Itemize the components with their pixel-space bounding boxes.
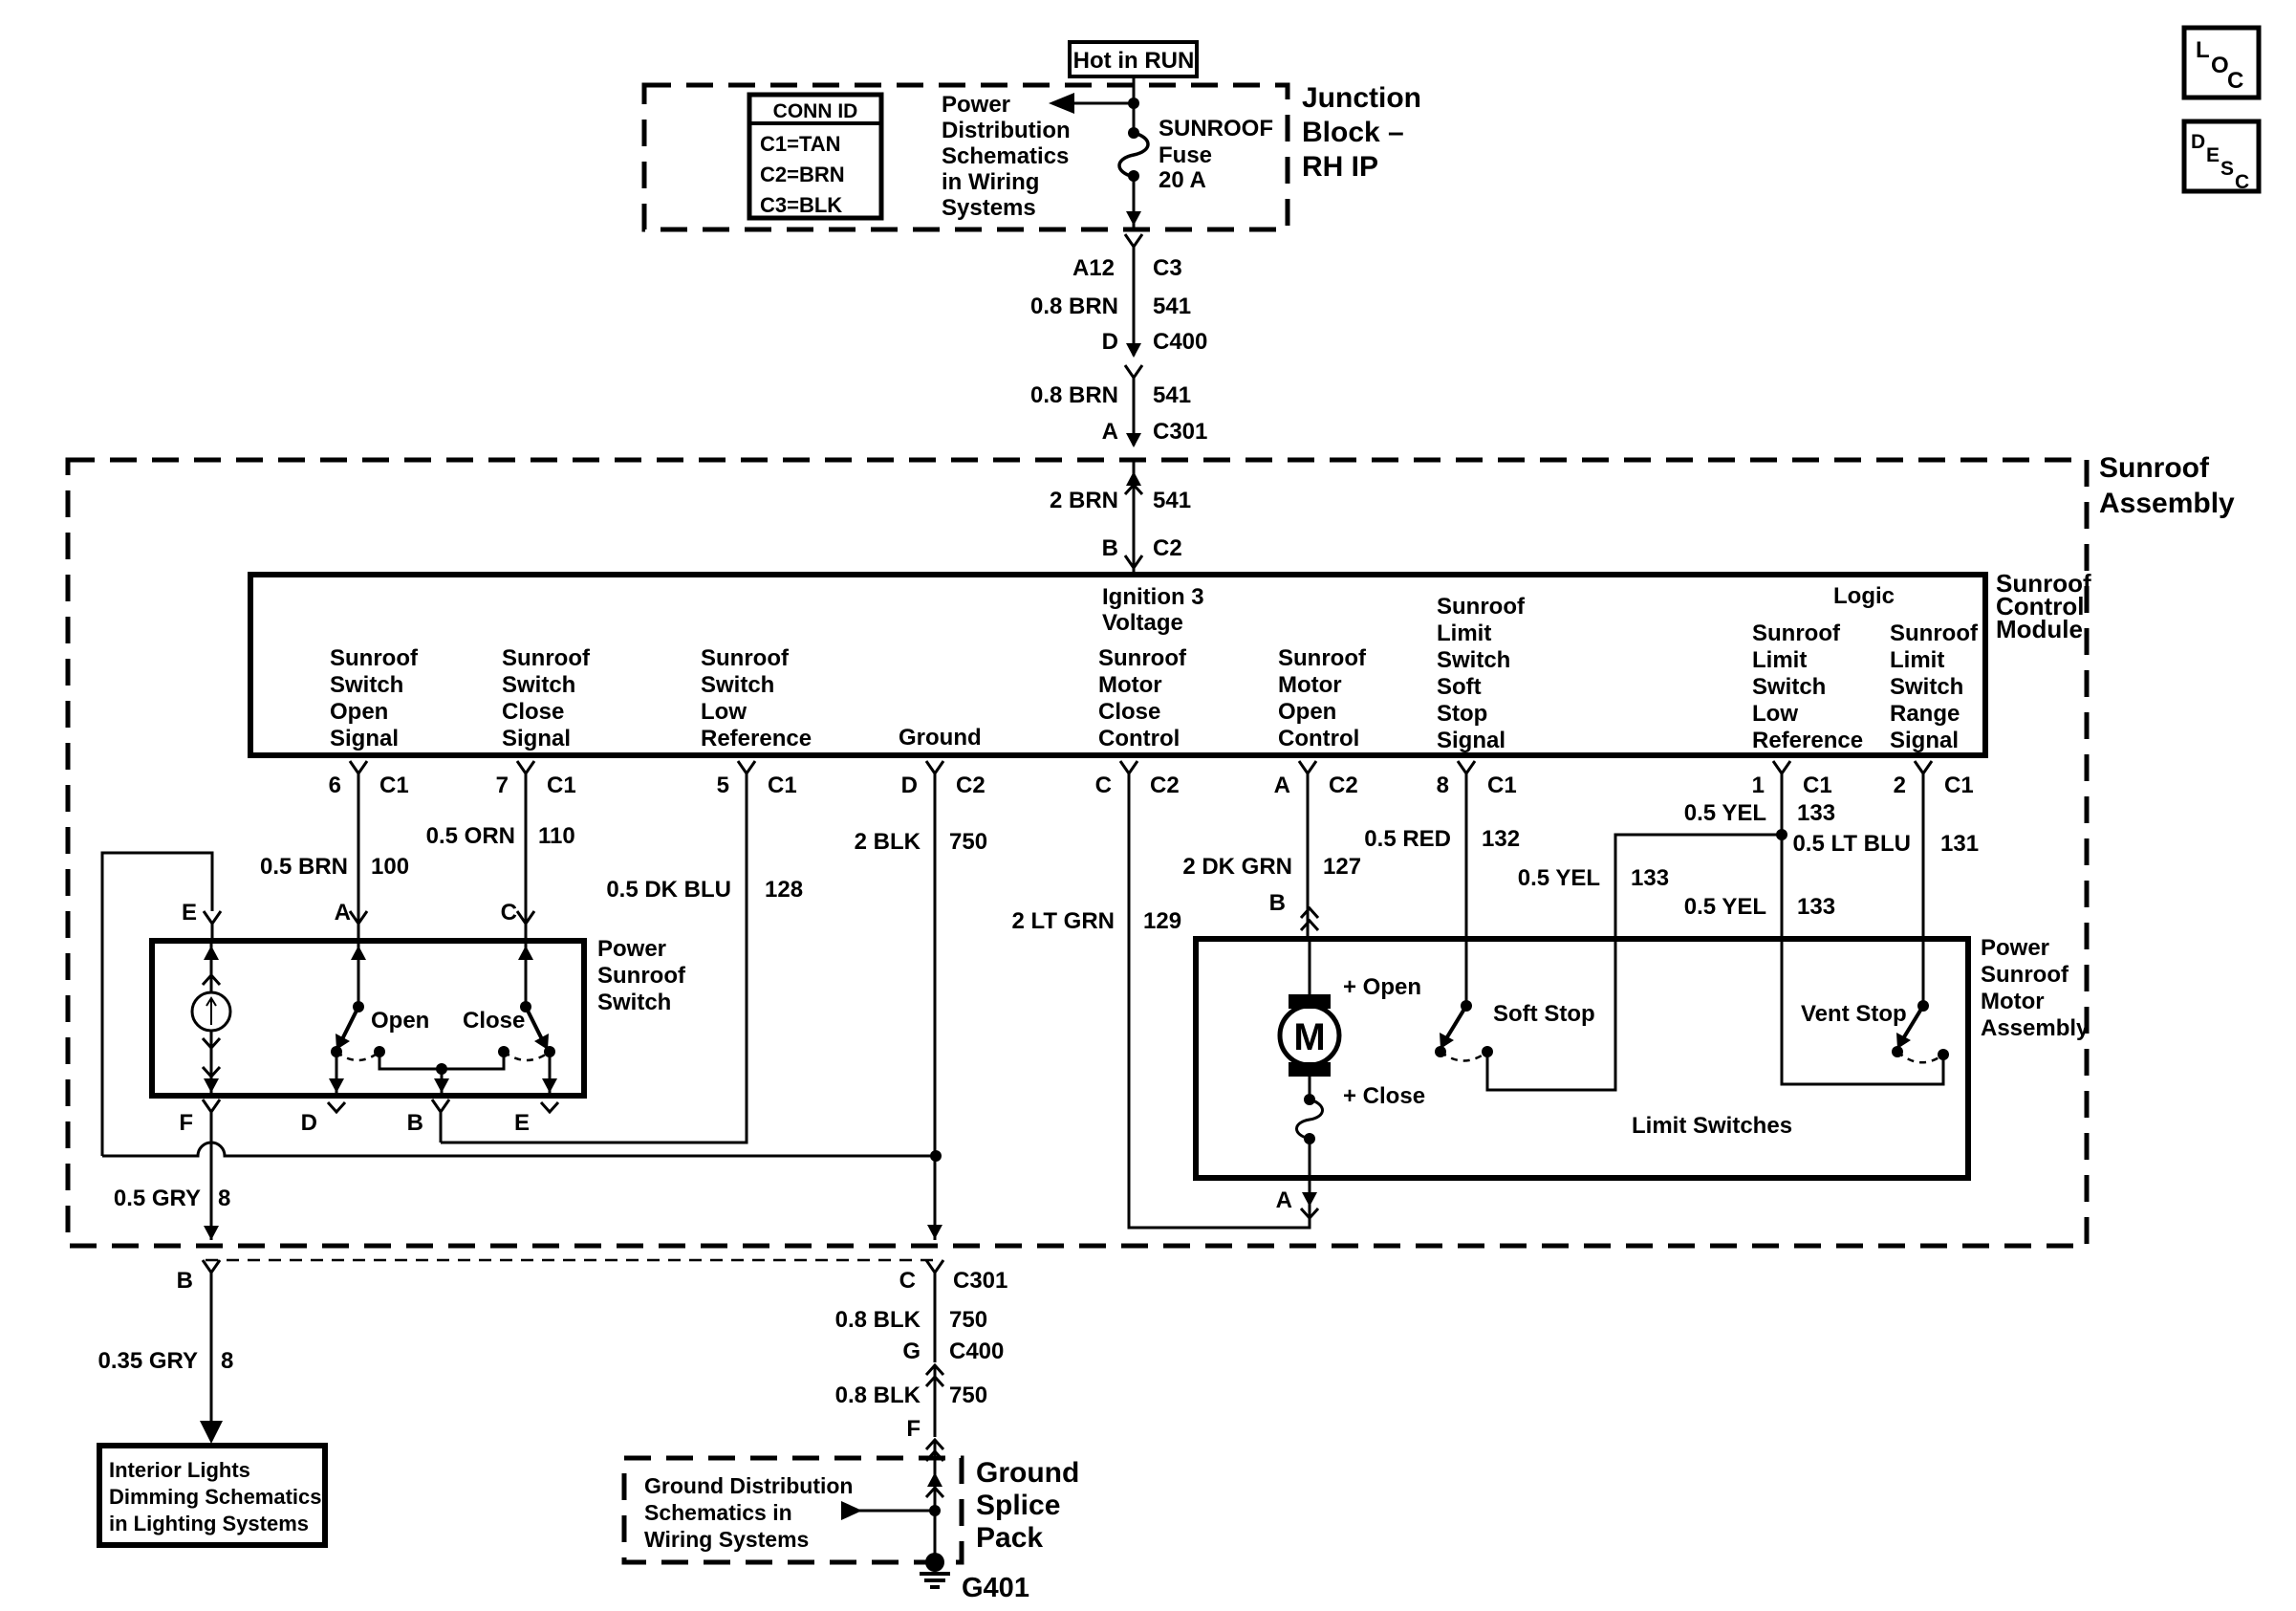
branch arrow to power distribution bbox=[1071, 102, 1134, 105]
ground distribution dashed box bbox=[624, 1458, 962, 1562]
svg-text:C1: C1 bbox=[379, 773, 409, 798]
svg-text:Switch: Switch bbox=[1437, 647, 1510, 673]
svg-text:Motor: Motor bbox=[1098, 672, 1162, 698]
module pin 2 C1 bbox=[1915, 761, 1932, 773]
switch pin E lower (dangling) bbox=[541, 1102, 558, 1112]
svg-text:C400: C400 bbox=[1153, 329, 1207, 355]
splice feed arrow bbox=[858, 1510, 935, 1513]
switch pin A bbox=[350, 911, 367, 924]
DESC reference box bbox=[2184, 121, 2259, 191]
svg-text:Sunroof: Sunroof bbox=[1278, 645, 1367, 671]
svg-text:Junction: Junction bbox=[1302, 82, 1421, 114]
svg-text:Schematics in: Schematics in bbox=[644, 1500, 792, 1525]
wire 0.5 RED 132 (pin 8 soft stop) bbox=[1465, 795, 1468, 1006]
svg-text:A: A bbox=[1102, 419, 1118, 445]
svg-text:A12: A12 bbox=[1072, 255, 1115, 281]
CONN ID table bbox=[749, 95, 881, 218]
svg-text:C1=TAN: C1=TAN bbox=[760, 132, 841, 156]
svg-text:Voltage: Voltage bbox=[1102, 610, 1183, 636]
earth ground symbol bbox=[920, 1572, 950, 1576]
contact E drop bbox=[549, 1052, 552, 1096]
Hot in RUN supply box bbox=[1070, 42, 1197, 76]
svg-text:Pack: Pack bbox=[976, 1522, 1043, 1554]
svg-text:0.5 BRN: 0.5 BRN bbox=[260, 854, 348, 880]
wire: E loop to ground link bbox=[102, 853, 212, 1156]
svg-text:Ground Distribution: Ground Distribution bbox=[644, 1473, 853, 1498]
power sunroof motor assembly box bbox=[1196, 939, 1968, 1178]
svg-text:in Wiring: in Wiring bbox=[942, 169, 1039, 195]
svg-text:2: 2 bbox=[1894, 773, 1906, 798]
svg-text:O: O bbox=[2211, 53, 2229, 78]
svg-text:C2: C2 bbox=[1329, 773, 1358, 798]
wire 0.5 LT BLU 131 (pin 2 range signal) bbox=[1922, 795, 1925, 1006]
svg-text:B: B bbox=[407, 1110, 423, 1136]
svg-text:Close: Close bbox=[502, 699, 564, 725]
sunroof control module U1 box bbox=[250, 575, 1985, 755]
wire 2 BLK 750 (pin D ground) bbox=[934, 795, 937, 1240]
svg-text:0.5 LT BLU: 0.5 LT BLU bbox=[1792, 831, 1911, 857]
open switch arm bbox=[357, 941, 360, 1007]
wire: F pin down to C301 bbox=[210, 1112, 213, 1240]
svg-text:C301: C301 bbox=[1153, 419, 1207, 445]
svg-text:C1: C1 bbox=[547, 773, 576, 798]
svg-text:5: 5 bbox=[717, 773, 729, 798]
svg-text:C2: C2 bbox=[956, 773, 986, 798]
LOC reference box bbox=[2184, 28, 2259, 98]
svg-text:Switch: Switch bbox=[701, 672, 774, 698]
svg-text:Limit Switches: Limit Switches bbox=[1632, 1113, 1792, 1139]
svg-text:D: D bbox=[2191, 131, 2205, 153]
svg-text:7: 7 bbox=[496, 773, 509, 798]
svg-text:C: C bbox=[2235, 171, 2249, 193]
svg-text:Reference: Reference bbox=[1752, 728, 1863, 753]
wire: Hot in RUN to fuse bbox=[1133, 76, 1136, 131]
svg-text:C2=BRN: C2=BRN bbox=[760, 163, 845, 186]
svg-text:G401: G401 bbox=[962, 1573, 1029, 1603]
module pin 8 C1 bbox=[1458, 761, 1475, 773]
svg-text:C1: C1 bbox=[1487, 773, 1517, 798]
svg-text:133: 133 bbox=[1797, 800, 1835, 826]
in-line connector C301 (thin dashed) bbox=[206, 1259, 942, 1262]
svg-text:Interior Lights: Interior Lights bbox=[109, 1458, 250, 1482]
svg-text:E: E bbox=[514, 1110, 530, 1136]
svg-text:0.5 YEL: 0.5 YEL bbox=[1518, 865, 1600, 891]
svg-text:Systems: Systems bbox=[942, 195, 1036, 221]
svg-text:C2: C2 bbox=[1150, 773, 1180, 798]
wire 0.35 GRY 8 to interior lights bbox=[210, 1273, 213, 1436]
svg-text:C: C bbox=[501, 900, 517, 925]
svg-text:0.5 GRY: 0.5 GRY bbox=[114, 1186, 201, 1211]
ground link wire with hop over F bbox=[102, 1143, 936, 1156]
svg-text:0.5 ORN: 0.5 ORN bbox=[426, 823, 515, 849]
wire 0.5 YEL 133 branch to vent stop bbox=[1782, 835, 1943, 1084]
svg-text:Module: Module bbox=[1996, 615, 2083, 643]
svg-text:Limit: Limit bbox=[1890, 647, 1944, 673]
svg-text:Open: Open bbox=[371, 1008, 429, 1034]
switch pin C bbox=[517, 911, 534, 924]
svg-text:Signal: Signal bbox=[1890, 728, 1959, 753]
svg-text:C1: C1 bbox=[1944, 773, 1974, 798]
svg-text:750: 750 bbox=[949, 1307, 987, 1333]
svg-text:Block –: Block – bbox=[1302, 117, 1404, 148]
wire: fuse to connector C3 bbox=[1133, 176, 1136, 228]
svg-text:F: F bbox=[906, 1416, 921, 1442]
svg-text:8: 8 bbox=[1437, 773, 1449, 798]
svg-text:B: B bbox=[1269, 890, 1286, 916]
svg-text:C3: C3 bbox=[1153, 255, 1182, 281]
wire 0.5 BRN 100 (pin 6 to switch A) bbox=[357, 795, 360, 941]
svg-text:Ground: Ground bbox=[976, 1457, 1079, 1489]
svg-text:B: B bbox=[177, 1268, 193, 1294]
svg-text:A: A bbox=[1276, 1187, 1292, 1213]
svg-text:Sunroof: Sunroof bbox=[701, 645, 790, 671]
svg-text:Power: Power bbox=[597, 936, 666, 962]
illumination lamp bbox=[210, 941, 213, 992]
svg-text:Schematics: Schematics bbox=[942, 143, 1069, 169]
fuse SUNROOF 20 A bbox=[1128, 127, 1139, 139]
svg-text:C: C bbox=[1095, 773, 1112, 798]
svg-text:Fuse: Fuse bbox=[1159, 142, 1212, 168]
svg-text:Switch: Switch bbox=[330, 672, 403, 698]
svg-text:132: 132 bbox=[1482, 826, 1520, 852]
svg-text:C2: C2 bbox=[1153, 535, 1182, 561]
svg-text:Limit: Limit bbox=[1437, 620, 1491, 646]
switch pin D (dangling) bbox=[328, 1102, 345, 1112]
junction block dashed boundary bbox=[644, 85, 1288, 229]
svg-text:0.8 BLK: 0.8 BLK bbox=[835, 1307, 921, 1333]
switch pin F bbox=[203, 1099, 220, 1112]
svg-text:+ Close: + Close bbox=[1343, 1083, 1425, 1109]
svg-text:Soft: Soft bbox=[1437, 674, 1482, 700]
svg-text:A: A bbox=[335, 900, 351, 925]
svg-text:D: D bbox=[901, 773, 918, 798]
svg-text:Ignition 3: Ignition 3 bbox=[1102, 584, 1204, 610]
svg-text:Hot in RUN: Hot in RUN bbox=[1073, 48, 1195, 74]
wire 2 BRN 541 bbox=[1133, 460, 1136, 575]
svg-text:Dimming Schematics: Dimming Schematics bbox=[109, 1485, 322, 1509]
svg-text:CONN ID: CONN ID bbox=[773, 100, 858, 122]
svg-text:Switch: Switch bbox=[1752, 674, 1826, 700]
module pin 1 C1 bbox=[1773, 761, 1790, 773]
svg-text:2 BRN: 2 BRN bbox=[1050, 488, 1118, 513]
svg-text:2 DK GRN: 2 DK GRN bbox=[1182, 854, 1292, 880]
svg-text:F: F bbox=[179, 1110, 193, 1136]
contact network to pin B bbox=[379, 1052, 504, 1069]
svg-text:E: E bbox=[182, 900, 197, 925]
svg-text:SUNROOF: SUNROOF bbox=[1159, 116, 1273, 142]
svg-text:129: 129 bbox=[1143, 908, 1181, 934]
wire 0.5 YEL 133 (pin 1 low reference) bbox=[1781, 795, 1784, 835]
svg-text:6: 6 bbox=[329, 773, 341, 798]
svg-text:0.5 DK BLU: 0.5 DK BLU bbox=[606, 877, 731, 903]
svg-text:8: 8 bbox=[221, 1348, 233, 1374]
svg-text:0.8 BLK: 0.8 BLK bbox=[835, 1382, 921, 1408]
power sunroof switch S1 box bbox=[152, 941, 584, 1096]
svg-text:0.5 YEL: 0.5 YEL bbox=[1684, 894, 1766, 920]
svg-text:133: 133 bbox=[1797, 894, 1835, 920]
svg-text:+ Open: + Open bbox=[1343, 974, 1421, 1000]
svg-text:C1: C1 bbox=[1803, 773, 1832, 798]
svg-text:541: 541 bbox=[1153, 488, 1191, 513]
svg-text:Sunroof: Sunroof bbox=[1890, 620, 1979, 646]
svg-text:E: E bbox=[2206, 144, 2220, 166]
svg-text:Logic: Logic bbox=[1833, 583, 1895, 609]
wire 0.5 DK BLU 128 (pin 5 to switch B) bbox=[441, 795, 747, 1143]
svg-text:Signal: Signal bbox=[502, 726, 571, 751]
module pin A C2 bbox=[1299, 761, 1316, 773]
svg-text:Sunroof: Sunroof bbox=[1752, 620, 1841, 646]
svg-text:127: 127 bbox=[1323, 854, 1361, 880]
switch pin E (illumination feed) bbox=[204, 911, 221, 924]
svg-text:Range: Range bbox=[1890, 701, 1960, 727]
svg-text:Control: Control bbox=[1098, 726, 1180, 751]
svg-text:Sunroof: Sunroof bbox=[502, 645, 591, 671]
junction node on ground wire bbox=[930, 1150, 942, 1162]
svg-text:Distribution: Distribution bbox=[942, 118, 1071, 143]
svg-text:D: D bbox=[301, 1110, 317, 1136]
svg-text:G: G bbox=[902, 1339, 921, 1364]
svg-text:100: 100 bbox=[371, 854, 409, 880]
svg-text:Open: Open bbox=[1278, 699, 1336, 725]
svg-text:20 A: 20 A bbox=[1159, 167, 1206, 193]
connector pin C of C301 bbox=[926, 1260, 943, 1273]
sunroof motor M1 bbox=[1309, 939, 1311, 994]
svg-text:Limit: Limit bbox=[1752, 647, 1807, 673]
junction node on feed wire bbox=[1128, 98, 1139, 109]
svg-text:128: 128 bbox=[765, 877, 803, 903]
interior lights dimming reference box bbox=[99, 1446, 325, 1545]
svg-text:Switch: Switch bbox=[502, 672, 575, 698]
svg-text:131: 131 bbox=[1940, 831, 1979, 857]
svg-text:Power: Power bbox=[942, 92, 1010, 118]
svg-text:Sunroof: Sunroof bbox=[1098, 645, 1187, 671]
wire 0.8 BRN 541 (upper) bbox=[1133, 247, 1136, 356]
svg-text:0.8 BRN: 0.8 BRN bbox=[1030, 382, 1118, 408]
svg-text:Wiring Systems: Wiring Systems bbox=[644, 1527, 809, 1552]
ground splice node G401 bbox=[925, 1553, 944, 1572]
wire 2 LT GRN 129 (pin C motor close) bbox=[1129, 795, 1310, 1228]
svg-text:0.8 BRN: 0.8 BRN bbox=[1030, 294, 1118, 319]
svg-text:Ground: Ground bbox=[899, 725, 982, 751]
svg-text:Motor: Motor bbox=[1981, 989, 2045, 1014]
svg-text:133: 133 bbox=[1631, 865, 1669, 891]
svg-text:Signal: Signal bbox=[330, 726, 399, 751]
svg-text:Sunroof: Sunroof bbox=[1981, 962, 2069, 988]
svg-text:Sunroof: Sunroof bbox=[330, 645, 419, 671]
wire 2 DK GRN 127 (pin A motor open) bbox=[1307, 795, 1310, 939]
svg-text:541: 541 bbox=[1153, 382, 1191, 408]
connector pin B of C301 bbox=[203, 1260, 220, 1273]
svg-text:0.5 RED: 0.5 RED bbox=[1364, 826, 1451, 852]
contact D drop bbox=[336, 1052, 338, 1096]
wire 0.5 YEL 133 branch to soft stop bbox=[1487, 835, 1782, 1090]
svg-text:Signal: Signal bbox=[1437, 728, 1505, 753]
vent stop limit switch bbox=[1917, 1000, 1929, 1012]
svg-text:Power: Power bbox=[1981, 935, 2049, 961]
svg-text:Splice: Splice bbox=[976, 1490, 1060, 1521]
module pin 5 C1 bbox=[738, 761, 755, 773]
svg-text:Sunroof: Sunroof bbox=[597, 963, 686, 989]
svg-text:Stop: Stop bbox=[1437, 701, 1487, 727]
connector A12 C3 bbox=[1125, 234, 1142, 247]
motor thermal protector bbox=[1309, 1077, 1311, 1099]
svg-text:Assembly: Assembly bbox=[1981, 1015, 2090, 1041]
module pin C C2 bbox=[1120, 761, 1137, 773]
wire 0.8 BRN 541 (lower) bbox=[1133, 378, 1136, 446]
svg-text:Close: Close bbox=[463, 1008, 525, 1034]
svg-text:Switch: Switch bbox=[1890, 674, 1963, 700]
svg-text:0.35 GRY: 0.35 GRY bbox=[98, 1348, 199, 1374]
svg-text:C: C bbox=[899, 1268, 916, 1294]
svg-text:C301: C301 bbox=[953, 1268, 1007, 1294]
wire 0.5 ORN 110 (pin 7 to switch C) bbox=[525, 795, 528, 941]
svg-text:Low: Low bbox=[701, 699, 747, 725]
svg-text:M: M bbox=[1293, 1016, 1325, 1058]
svg-text:D: D bbox=[1102, 329, 1118, 355]
sunroof assembly dashed boundary bbox=[68, 460, 2087, 1246]
svg-text:Reference: Reference bbox=[701, 726, 812, 751]
svg-text:Control: Control bbox=[1278, 726, 1359, 751]
svg-text:in Lighting Systems: in Lighting Systems bbox=[109, 1512, 309, 1535]
svg-text:B: B bbox=[1102, 535, 1118, 561]
svg-text:A: A bbox=[1274, 773, 1290, 798]
svg-text:Low: Low bbox=[1752, 701, 1798, 727]
svg-text:C400: C400 bbox=[949, 1339, 1004, 1364]
soft stop limit switch bbox=[1461, 1000, 1472, 1012]
svg-text:2 LT GRN: 2 LT GRN bbox=[1011, 908, 1115, 934]
svg-text:Assembly: Assembly bbox=[2099, 488, 2235, 519]
svg-text:L: L bbox=[2196, 37, 2210, 63]
svg-text:750: 750 bbox=[949, 1382, 987, 1408]
switch pin B bbox=[432, 1099, 449, 1112]
svg-text:2 BLK: 2 BLK bbox=[855, 829, 921, 855]
svg-text:1: 1 bbox=[1752, 773, 1765, 798]
svg-text:Sunroof: Sunroof bbox=[1437, 594, 1526, 620]
svg-text:Motor: Motor bbox=[1278, 672, 1342, 698]
svg-text:C1: C1 bbox=[768, 773, 797, 798]
svg-text:Close: Close bbox=[1098, 699, 1160, 725]
wire 0.8 BLK 750 (upper) bbox=[934, 1273, 937, 1362]
svg-text:RH IP: RH IP bbox=[1302, 151, 1378, 183]
module pin D C2 bbox=[926, 761, 943, 773]
junction node: limit switch low reference bbox=[1776, 829, 1787, 840]
svg-text:541: 541 bbox=[1153, 294, 1191, 319]
svg-text:0.5 YEL: 0.5 YEL bbox=[1684, 800, 1766, 826]
svg-text:8: 8 bbox=[218, 1186, 230, 1211]
svg-text:Soft Stop: Soft Stop bbox=[1493, 1001, 1595, 1027]
svg-text:C3=BLK: C3=BLK bbox=[760, 193, 842, 217]
module pin 6 C1 bbox=[350, 761, 367, 773]
open switch contacts bbox=[331, 1046, 342, 1057]
svg-text:Switch: Switch bbox=[597, 990, 671, 1015]
svg-text:Open: Open bbox=[330, 699, 388, 725]
svg-text:C: C bbox=[2227, 68, 2243, 94]
close switch contacts bbox=[498, 1046, 509, 1057]
svg-text:110: 110 bbox=[538, 823, 575, 849]
wire 0.8 BLK 750 (lower) bbox=[934, 1365, 937, 1437]
svg-text:Sunroof: Sunroof bbox=[2099, 452, 2210, 484]
svg-text:S: S bbox=[2220, 158, 2234, 180]
module pin 7 C1 bbox=[517, 761, 534, 773]
svg-text:750: 750 bbox=[949, 829, 987, 855]
svg-text:Vent Stop: Vent Stop bbox=[1801, 1001, 1907, 1027]
